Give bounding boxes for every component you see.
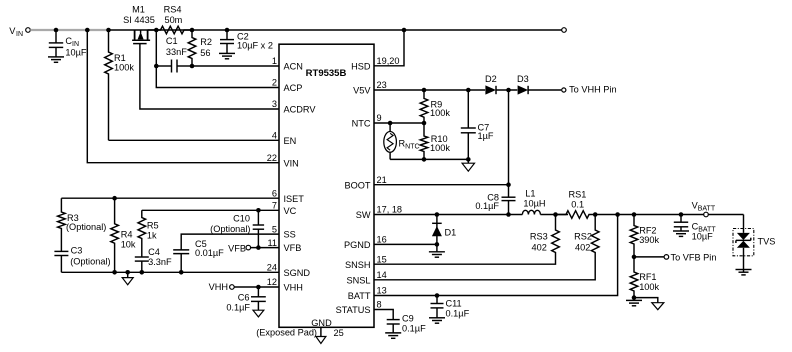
svg-text:0.1µF: 0.1µF [446,309,470,319]
label D1 [445,228,457,238]
ground CIN earth [48,57,64,62]
label C11 [446,299,470,319]
label C3 [70,245,110,266]
svg-text:SW: SW [356,210,371,220]
wire VIN vertical to pin 22 [85,28,279,163]
svg-text:C6: C6 [238,292,250,302]
svg-text:C4: C4 [148,247,160,257]
svg-text:VFB: VFB [284,243,302,253]
wire STATUS pin 8 [374,310,393,320]
inductor L1 [522,210,540,214]
capacitor C11 [431,296,444,318]
transistor M1 [132,30,150,44]
svg-text:390k: 390k [639,235,659,245]
label C4 [148,247,172,267]
svg-text:23: 23 [377,80,387,90]
svg-text:17, 18: 17, 18 [377,205,403,215]
svg-text:M1: M1 [132,5,145,15]
labels left pin numbers [267,56,277,287]
ground C11 earth [429,318,445,323]
svg-text:11: 11 [267,238,277,248]
labels left pin names [284,62,317,293]
wire GND pin 25 stub [320,327,322,336]
svg-text:SI 4435: SI 4435 [123,15,155,25]
wire ACP node [154,28,279,88]
svg-text:IN: IN [16,31,23,38]
capacitor CBATT [674,215,688,232]
svg-text:RS4: RS4 [164,5,182,15]
label CIN [65,36,87,57]
wire NTC bottom [390,157,471,162]
ground C7 [462,159,474,171]
label RT9535B [306,68,347,79]
wire VBATT to TVS [708,214,743,216]
wire top rail black segment [109,29,562,31]
label RF1 [639,272,659,292]
svg-text:24: 24 [267,263,277,273]
label R5 [147,220,159,240]
label R1 [114,53,134,72]
wire SW line pins 17 18 [374,212,522,217]
svg-text:VHH: VHH [209,282,228,292]
wire VFB to pin 11 [251,247,279,249]
diode D3 [517,74,529,94]
ground D1 earth [429,244,445,257]
svg-text:To VHH Pin: To VHH Pin [569,85,616,95]
svg-text:VIN: VIN [284,158,299,168]
svg-text:50m: 50m [164,15,182,25]
label R3 [66,213,106,232]
label C9 [402,314,426,334]
svg-text:ACDRV: ACDRV [284,105,317,115]
wire BOOT pin 21 [374,182,511,187]
svg-text:R2: R2 [200,37,212,47]
wire BATT pin 13 [374,215,618,298]
capacitor C2 [220,28,234,54]
svg-text:(Optional): (Optional) [70,257,110,267]
svg-text:(Optional): (Optional) [210,224,250,234]
resistor R2 [188,28,196,69]
capacitor C9 [387,320,400,333]
label exposed pad [256,328,344,339]
op-amp U1 RT9535B box [279,44,374,327]
capacitor C8 [502,197,516,200]
wire D2 to D3 [496,88,517,93]
svg-text:BOOT: BOOT [344,180,370,190]
resistor R3 [58,198,66,251]
ground SGND [122,278,133,285]
wire RS3 to SNSH pin 15 [374,258,556,264]
label C10 [210,214,250,234]
wire ISET line pin 6 [61,196,279,201]
wire M1 gate to ACDRV pin 3 [140,44,279,109]
svg-text:100k: 100k [430,108,450,118]
svg-text:D1: D1 [445,228,457,238]
svg-text:1: 1 [272,56,277,66]
wire RS2 to SNSL pin 14 [374,273,595,280]
wire SS line pin 5 [181,234,279,241]
svg-text:(Optional): (Optional) [66,222,106,232]
svg-text:33nF: 33nF [166,47,187,57]
svg-text:10µH: 10µH [523,199,545,209]
capacitor C3 [54,251,68,272]
label C8 [475,192,499,211]
svg-text:SS: SS [284,230,296,240]
svg-text:402: 402 [532,243,547,253]
svg-text:10µF: 10µF [692,231,714,241]
svg-text:402: 402 [575,243,590,253]
label R10 [430,134,450,153]
svg-text:SNSL: SNSL [346,275,370,285]
svg-text:RS1: RS1 [569,189,587,199]
svg-text:VHH: VHH [284,283,303,293]
svg-text:To VFB Pin: To VFB Pin [671,253,717,263]
svg-text:RF1: RF1 [639,272,656,282]
label RS3 [530,232,548,253]
svg-text:R4: R4 [121,230,133,240]
node top-right terminal [562,28,567,33]
label GND pin [311,318,332,328]
svg-text:56: 56 [200,48,210,58]
label C6 [226,292,250,312]
svg-text:15: 15 [377,254,387,264]
label R9 [430,99,450,118]
wire VIN to rail (gray segment) [30,29,108,31]
label RS2 [574,232,592,253]
label C5 [195,239,224,258]
svg-text:VC: VC [284,206,297,216]
label RS4 [164,5,183,25]
node VIN terminal [9,26,30,38]
wire V5V line pin 23 [374,88,485,93]
svg-text:ISET: ISET [284,194,305,204]
labels right pin names [336,61,372,315]
svg-text:25: 25 [334,328,344,338]
svg-text:10µF: 10µF [65,47,87,57]
svg-text:13: 13 [377,286,387,296]
svg-text:(Exposed Pad): (Exposed Pad) [256,328,317,338]
svg-text:16: 16 [377,235,387,245]
svg-text:GND: GND [311,318,332,328]
ground RF1 earth [626,295,642,305]
capacitor C7 [461,90,476,159]
ground C2 earth [219,53,235,58]
label R4 [121,230,136,250]
wire VHH to pin 12 [234,285,279,290]
resistor RF2 [630,215,638,260]
ground CBATT earth [673,231,689,236]
wire BOOT vertical [506,90,511,217]
svg-text:1µF: 1µF [478,131,494,141]
diode D2 [485,74,497,94]
svg-text:22: 22 [267,153,277,163]
svg-text:100k: 100k [430,143,450,153]
wire RF1 to signal ground [634,298,658,303]
capacitor C4 [135,257,149,275]
capacitor C10 [253,208,264,250]
svg-text:6: 6 [272,188,277,198]
wire RS1 to VBATT [593,212,704,217]
wire to VFB pin terminal [634,256,664,258]
wire HSD to rail [374,28,406,66]
svg-text:L1: L1 [525,188,535,198]
svg-text:0.01µF: 0.01µF [195,248,224,258]
svg-text:BATT: BATT [348,291,371,301]
label C1 [166,36,187,57]
diode D1 [432,215,442,247]
resistor RF1 [630,257,638,298]
svg-text:D3: D3 [517,74,529,84]
svg-text:0.1µF: 0.1µF [226,302,250,312]
svg-text:0.1: 0.1 [571,200,584,210]
ground C9 earth [385,333,401,338]
node VHH terminal [209,282,235,292]
node To VHH Pin terminal [562,85,617,95]
wire D3 to VHH terminal [528,89,561,91]
wire R1 to EN pin 4 [109,139,280,141]
svg-text:STATUS: STATUS [336,305,371,315]
svg-text:14: 14 [377,270,387,280]
resistor R9 [420,90,428,125]
svg-text:R5: R5 [147,220,159,230]
capacitor CIN [49,28,63,57]
wire PGND pin 16 [374,243,437,245]
thermistor RNTC [384,123,397,159]
svg-text:SNSH: SNSH [345,260,371,270]
resistor RS4 [148,26,192,34]
svg-text:0.1µF: 0.1µF [475,201,499,211]
resistor R5 [138,210,146,257]
wire ACN to pin 1 [192,65,279,67]
resistor RS2 [591,215,599,274]
svg-text:3.3nF: 3.3nF [148,257,172,267]
svg-text:RS3: RS3 [530,232,548,242]
svg-text:TVS: TVS [758,237,776,247]
svg-text:3: 3 [272,99,277,109]
node VBATT terminal [692,201,716,217]
resistor R1 [105,28,113,141]
capacitor C6 [251,287,266,310]
svg-text:C10: C10 [233,214,250,224]
wire L1 to RS1 [540,212,568,217]
svg-text:RT9535B: RT9535B [306,68,347,79]
labels right pin numbers [377,56,403,310]
svg-text:EN: EN [284,136,297,146]
svg-text:VFB: VFB [228,243,246,253]
svg-text:C9: C9 [402,314,414,324]
capacitor C5 [173,241,189,275]
wire NTC line pin 9 [374,121,424,126]
label C7 [478,122,494,141]
svg-text:19,20: 19,20 [377,56,400,66]
resistor RS1 [556,211,596,219]
ground C6 [253,310,264,317]
label RNTC [399,138,420,150]
svg-text:NTC: NTC [352,119,371,129]
svg-text:12: 12 [267,277,277,287]
resistor R10 [420,123,428,162]
resistor RS3 [552,215,560,259]
label L1 [523,188,545,208]
svg-text:PGND: PGND [344,240,371,250]
svg-text:V5V: V5V [353,86,371,96]
node To VFB Pin terminal [664,253,716,263]
svg-text:RS2: RS2 [574,232,592,242]
svg-text:4: 4 [272,131,277,141]
svg-text:10µF x 2: 10µF x 2 [237,40,273,50]
svg-text:5: 5 [272,224,277,234]
label TVS [758,237,776,247]
wire TVS vertical [743,215,745,273]
node VFB terminal [228,243,250,253]
wire VC line pin 7 [142,209,279,211]
svg-text:C3: C3 [71,245,83,255]
diode TVS [733,229,754,256]
ground exposed pad [316,337,326,344]
capacitor C1 [156,60,192,73]
svg-text:HSD: HSD [351,61,371,71]
svg-text:C1: C1 [166,36,178,46]
ground RF1 triangle [652,303,664,310]
svg-text:D2: D2 [485,74,497,84]
svg-text:21: 21 [377,175,387,185]
svg-text:ACP: ACP [284,83,303,93]
svg-text:0.1µF: 0.1µF [402,324,426,334]
svg-text:8: 8 [377,300,382,310]
svg-text:100k: 100k [639,282,659,292]
label C2 [237,32,273,51]
svg-text:ACN: ACN [284,62,303,72]
label CBATT [692,222,717,242]
svg-text:SGND: SGND [284,268,311,278]
svg-text:7: 7 [272,201,277,211]
svg-text:C11: C11 [446,299,462,309]
label R2 [200,37,212,58]
label RF2 [639,226,659,246]
wire SGND gnd stub [125,270,130,278]
label M1 [123,5,155,25]
svg-text:1k: 1k [147,231,157,241]
wire SGND rail [61,271,279,273]
svg-text:2: 2 [272,78,277,88]
svg-text:9: 9 [377,113,382,123]
svg-text:10k: 10k [121,239,136,249]
label RS1 [569,189,587,209]
svg-text:100k: 100k [114,62,134,72]
ground TVS earth [736,270,752,275]
svg-text:RF2: RF2 [639,226,656,236]
resistor R4 [111,198,119,274]
